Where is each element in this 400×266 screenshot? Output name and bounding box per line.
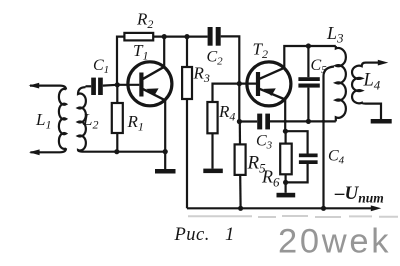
transistor T2 — [247, 62, 291, 106]
transistor T1 — [117, 62, 172, 106]
wire R3 bottom to bottom rail — [186, 99, 188, 208]
wire C4 bottom to R6 node — [286, 164, 308, 182]
wire L4 bottom to ground — [366, 104, 382, 119]
wire T2 base line with R4 corner — [213, 84, 257, 102]
wire R2 left leg — [117, 37, 124, 85]
node R6 bottom junction — [283, 180, 288, 185]
wire L2 top to C1 — [86, 85, 92, 87]
svg-text:R3: R3 — [193, 64, 210, 86]
svg-text:C3: C3 — [256, 133, 273, 152]
ground R6 — [277, 193, 296, 198]
wire L3 tap down to rail — [324, 67, 335, 209]
node emitter ground line — [163, 149, 168, 154]
svg-text:T1: T1 — [133, 41, 148, 63]
svg-text:R4: R4 — [218, 102, 235, 124]
wire T2 emitter down — [284, 100, 286, 132]
node R5 C3 junction — [237, 119, 242, 124]
node R5 bottom on rail — [238, 206, 243, 211]
wire C1 to base node — [103, 84, 118, 87]
svg-text:–Uпит: –Uпит — [334, 183, 384, 206]
inductor L3 — [336, 46, 346, 121]
wire R5 top — [239, 122, 241, 145]
node base T1 junction — [115, 82, 120, 87]
resistor R1 — [112, 103, 123, 133]
resistor R2 — [124, 33, 153, 41]
node tap crossing — [322, 120, 325, 123]
wire R5 bottom — [239, 175, 242, 208]
capacitor C4 — [299, 154, 318, 165]
capacitor C2 — [208, 27, 221, 46]
node C2 vertical base line crossing — [237, 81, 242, 86]
wire input top arrow line — [29, 83, 66, 90]
wire top rail R2 to C2 — [153, 35, 207, 37]
resistor R6 — [280, 131, 292, 174]
wire R6 bottom to ground — [285, 174, 287, 193]
svg-text:L1: L1 — [35, 110, 51, 132]
wire T1 emitter down — [164, 100, 166, 169]
wire input bottom arrow line — [29, 148, 66, 155]
capacitor C5 — [298, 77, 319, 87]
wire T1 collector — [163, 37, 165, 67]
wire R4 bottom — [211, 133, 213, 168]
resistor R3 — [182, 67, 192, 99]
wire R6 top to C4 — [285, 131, 307, 153]
inductor L1 — [59, 89, 66, 149]
resistor R5 — [235, 144, 246, 175]
wire C3 right to L3 bottom line — [270, 120, 336, 122]
wire R1 bottom — [116, 133, 118, 152]
svg-text:C4: C4 — [328, 148, 345, 167]
wire T2 collector rail — [284, 46, 336, 68]
node emitter line crossing — [284, 120, 287, 123]
svg-text:C2: C2 — [207, 49, 224, 68]
node R6 top junction — [283, 129, 288, 134]
resistor R4 — [207, 102, 217, 133]
svg-text:Рис.1: Рис.1 — [174, 225, 235, 245]
wire C5 bottom — [307, 88, 309, 122]
svg-text:C1: C1 — [93, 57, 109, 76]
svg-text:R2: R2 — [136, 10, 153, 32]
ground R4 — [203, 169, 223, 174]
svg-text:L2: L2 — [82, 110, 98, 132]
ground T1 emitter — [155, 169, 176, 174]
wire R1 top — [116, 85, 118, 103]
svg-text:20wek: 20wek — [278, 223, 391, 261]
node L3 tap on rail — [321, 206, 326, 211]
wire R3 top — [186, 37, 188, 67]
svg-text:L4: L4 — [363, 71, 381, 93]
node R3 top on rail — [184, 34, 189, 39]
node T1 collector on rail — [162, 34, 167, 39]
capacitor C1 — [91, 78, 103, 95]
node R1 bottom — [114, 149, 119, 154]
wire left common line L2 R1 emitter — [84, 151, 165, 153]
wire L4 top output arrow — [366, 60, 389, 66]
ground L4 — [371, 119, 392, 124]
wire C3 left — [239, 120, 257, 122]
node C5 top on rail — [306, 43, 311, 48]
wire bottom rail — [187, 205, 381, 211]
svg-text:L3: L3 — [326, 23, 344, 46]
wire C5 top — [307, 46, 309, 77]
wire C2 right to vertical — [221, 36, 240, 121]
capacitor C3 — [257, 114, 270, 130]
svg-text:T2: T2 — [253, 40, 268, 62]
svg-text:R6: R6 — [261, 167, 280, 190]
svg-text:R1: R1 — [127, 112, 144, 134]
node C5 bottom junction — [306, 119, 311, 124]
inductor L2 — [78, 87, 86, 152]
inductor L4 — [352, 63, 365, 104]
scan artifact streak — [188, 216, 398, 217]
